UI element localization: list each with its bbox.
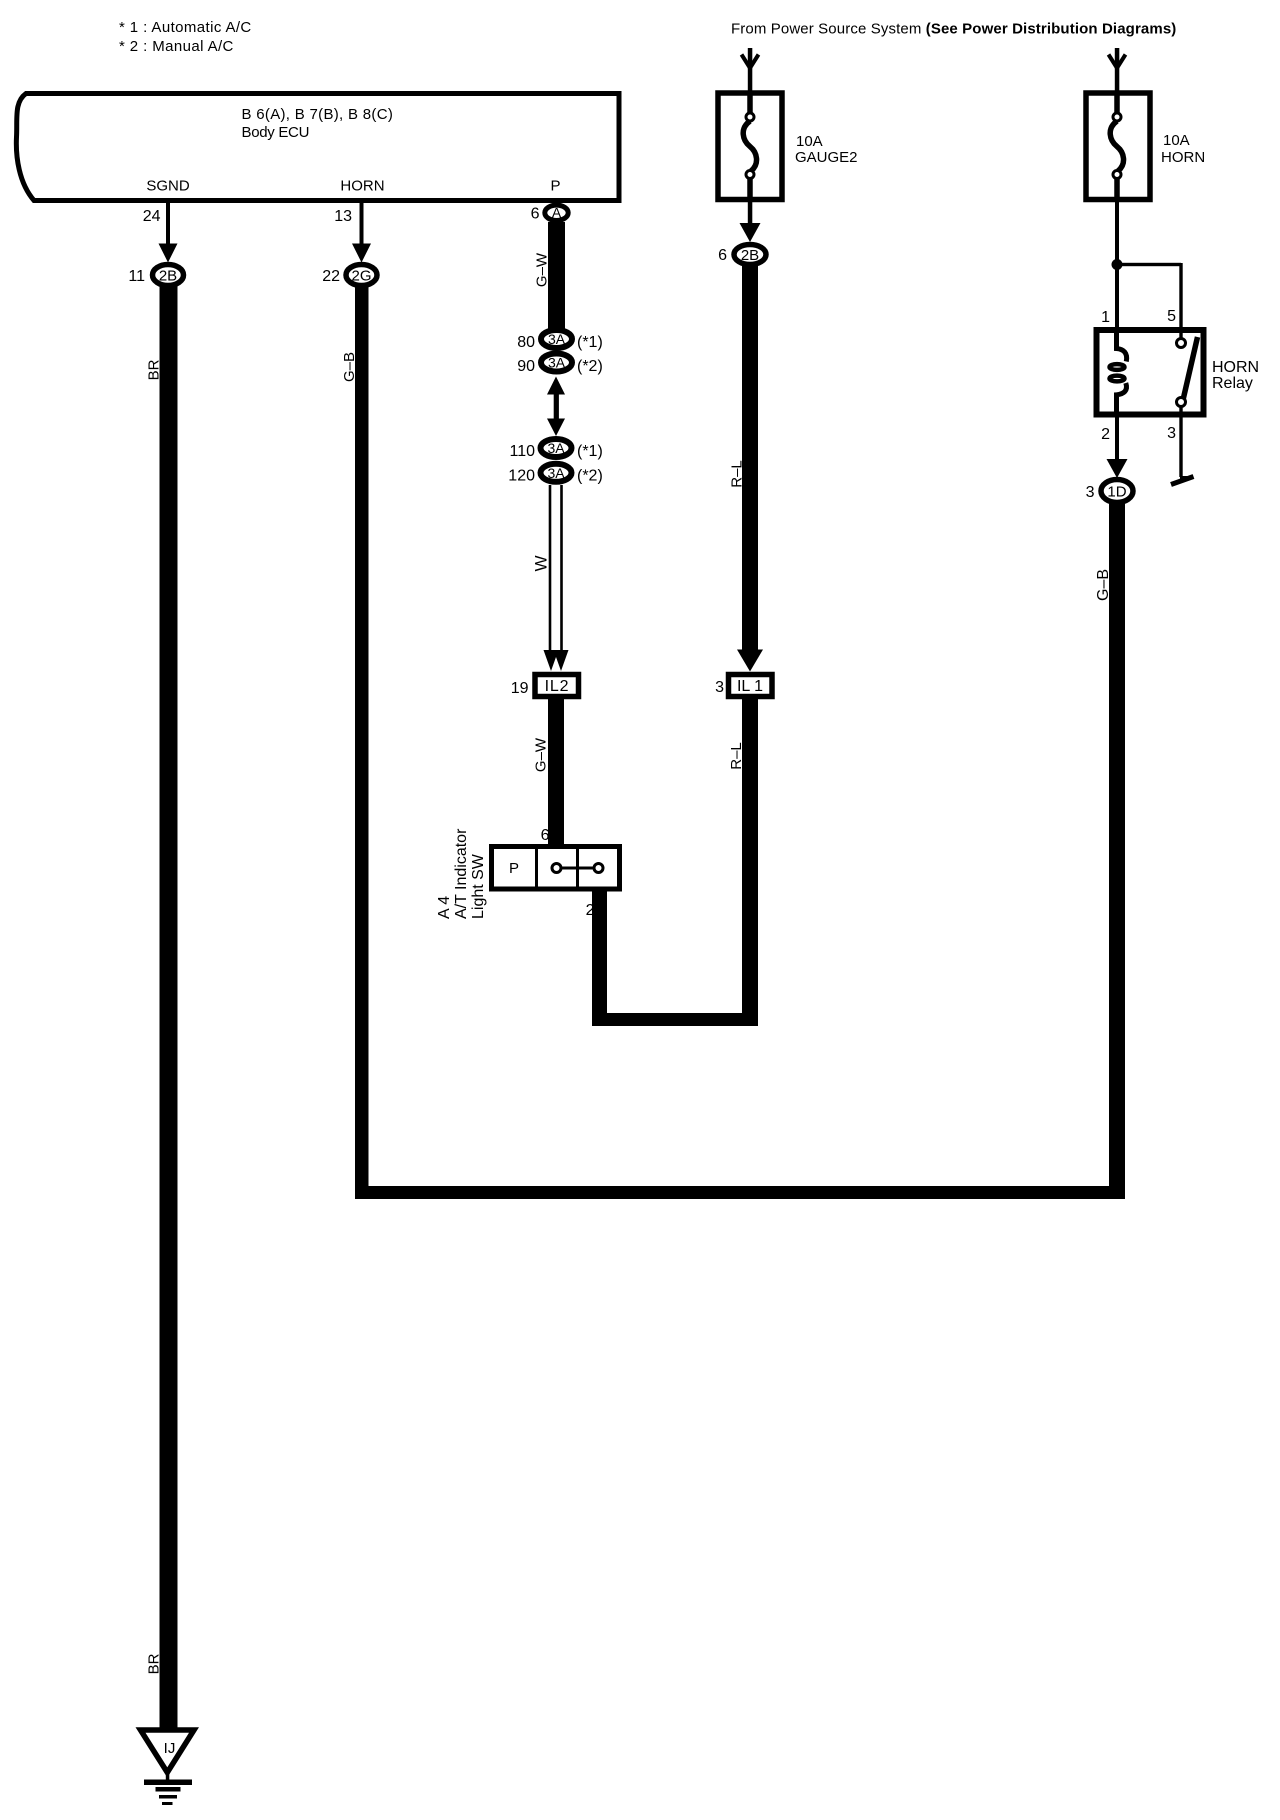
- svg-text:IL2: IL2: [545, 678, 570, 695]
- pin 24 SGND stub wire: [166, 201, 170, 248]
- cell divider 2: [576, 847, 579, 890]
- relay switch top contact: [1177, 339, 1186, 348]
- ground stem: [166, 1771, 170, 1781]
- svg-text:W: W: [532, 555, 551, 571]
- From power source arrow (GAUGE2): [748, 48, 753, 93]
- ground triangle IJ: [141, 1730, 195, 1773]
- pin 13 HORN stub wire: [360, 201, 364, 248]
- svg-text:3A: 3A: [547, 440, 565, 456]
- ground bar 1: [144, 1780, 192, 1786]
- arrow into IL1: [737, 650, 763, 672]
- svg-text:1: 1: [1101, 309, 1110, 326]
- wire fuse to relay pin 1: [1115, 202, 1119, 328]
- svg-text:5: 5: [1167, 308, 1176, 325]
- svg-text:Light SW: Light SW: [470, 853, 487, 919]
- arrow down into 110: [547, 419, 565, 437]
- stub below fuse: [748, 202, 753, 227]
- svg-text:3: 3: [1167, 425, 1176, 442]
- svg-text:Relay: Relay: [1212, 375, 1253, 392]
- fuse element GAUGE2: [743, 95, 756, 202]
- svg-text:13: 13: [334, 208, 352, 225]
- wire from switch pin 2 down: [592, 889, 607, 1026]
- svg-text:110: 110: [509, 443, 535, 460]
- fuse HORN box: [1086, 93, 1150, 200]
- svg-text:HORN: HORN: [1161, 149, 1205, 166]
- arrow into connector 2G: [352, 244, 371, 263]
- wire G-W (P pin down): [548, 222, 565, 330]
- connector 110 (3A): [541, 439, 572, 457]
- svg-text:3A: 3A: [548, 331, 566, 347]
- wire relay pin3 down: [1179, 417, 1182, 477]
- svg-text:3A: 3A: [548, 355, 566, 371]
- svg-text:6: 6: [718, 247, 727, 264]
- svg-text:G–B: G–B: [341, 352, 358, 382]
- relay switch stub bottom: [1179, 406, 1182, 416]
- svg-text:HORN: HORN: [340, 178, 384, 195]
- connector 120 (3A): [541, 464, 572, 482]
- svg-text:* 2 : Manual A/C: * 2 : Manual A/C: [119, 38, 234, 55]
- svg-text:A/T Indicator: A/T Indicator: [453, 828, 470, 919]
- svg-text:From Power Source System (See: From Power Source System (See Power Dist…: [731, 21, 1176, 38]
- relay switch blade: [1183, 337, 1198, 400]
- svg-text:R–L: R–L: [728, 742, 745, 770]
- arrow into 2B (gauge): [740, 223, 761, 242]
- connector 2B (SGND): [153, 265, 184, 286]
- svg-text:B 6(A), B 7(B), B 8(C): B 6(A), B 7(B), B 8(C): [242, 106, 394, 123]
- svg-text:(*2): (*2): [577, 468, 603, 485]
- wire bottom horizontal G-B: [355, 1186, 1125, 1199]
- svg-text:11: 11: [128, 268, 145, 285]
- svg-text:A: A: [552, 205, 562, 221]
- svg-text:1D: 1D: [1107, 484, 1126, 501]
- arrow up into 90: [547, 377, 565, 395]
- svg-text:IL 1: IL 1: [737, 678, 763, 695]
- wire relay pin2 down: [1115, 417, 1119, 462]
- svg-text:19: 19: [511, 680, 529, 697]
- svg-text:6: 6: [541, 827, 550, 844]
- svg-text:90: 90: [517, 358, 535, 375]
- wire G-B (HORN to relay net, vertical): [355, 284, 369, 1199]
- svg-text:(*1): (*1): [577, 334, 603, 351]
- svg-text:80: 80: [517, 334, 535, 351]
- svg-text:6: 6: [531, 206, 540, 223]
- arrow into connector 2B: [159, 244, 178, 263]
- junction dot: [1112, 259, 1123, 270]
- wire G-B (1D vertical): [1109, 503, 1125, 1199]
- svg-text:BR: BR: [146, 359, 163, 380]
- arrow into 1D: [1107, 459, 1128, 478]
- double arrows into IL2: [544, 650, 559, 671]
- ground bar 4: [162, 1802, 173, 1805]
- svg-text:R–L: R–L: [729, 460, 746, 488]
- svg-text:P: P: [550, 178, 560, 195]
- relay switch bottom contact: [1177, 398, 1186, 407]
- svg-text:2G: 2G: [351, 268, 371, 285]
- svg-text:2B: 2B: [159, 268, 177, 285]
- svg-text:Body ECU: Body ECU: [242, 124, 310, 141]
- relay coil: [1117, 330, 1127, 362]
- contact circle left: [552, 864, 561, 873]
- connector 80 (3A): [541, 330, 572, 348]
- svg-text:BR: BR: [146, 1653, 163, 1674]
- svg-text:24: 24: [143, 208, 161, 225]
- svg-text:A 4: A 4: [436, 896, 453, 919]
- ground bar 3: [159, 1795, 177, 1799]
- svg-text:10A: 10A: [1163, 132, 1190, 149]
- svg-text:(*1): (*1): [577, 443, 603, 460]
- svg-text:10A: 10A: [796, 133, 823, 150]
- fuse element HORN: [1110, 95, 1123, 202]
- svg-text:HORN: HORN: [1212, 359, 1259, 376]
- connector 2B (gauge): [734, 245, 766, 265]
- relay switch stub top: [1179, 328, 1182, 339]
- wire between connector pair: [554, 392, 559, 421]
- wire G-W (IL2 to switch): [548, 699, 564, 847]
- connector 2G (HORN): [346, 265, 377, 286]
- switch A4 A/T Indicator Light SW box: [492, 847, 620, 890]
- svg-text:120: 120: [508, 468, 535, 485]
- fuse GAUGE2 box: [718, 93, 782, 200]
- wire W double line: [549, 485, 552, 652]
- svg-text:(*2): (*2): [577, 358, 603, 375]
- svg-text:22: 22: [322, 268, 340, 285]
- svg-text:GAUGE2: GAUGE2: [795, 149, 858, 166]
- body ground symbol: [1180, 476, 1193, 480]
- svg-text:G–B: G–B: [1095, 569, 1112, 601]
- From power source arrow (HORN): [1115, 48, 1120, 93]
- junction box IL2: [535, 675, 579, 697]
- cell divider 1: [535, 847, 538, 890]
- svg-text:* 1 : Automatic A/C: * 1 : Automatic A/C: [119, 19, 252, 36]
- connector 90 (3A): [541, 354, 572, 372]
- svg-text:2: 2: [1101, 426, 1110, 443]
- connector circle A: [545, 205, 568, 220]
- wire horizontal to R-L: [592, 1013, 758, 1026]
- svg-text:SGND: SGND: [146, 178, 190, 195]
- svg-text:G–W: G–W: [533, 737, 550, 772]
- svg-text:3A: 3A: [547, 465, 565, 481]
- branch wire to pin 5: [1117, 263, 1181, 266]
- wire BR (SGND): [160, 284, 178, 1729]
- contact circle right: [594, 864, 603, 873]
- wire R-L (IL1 down to corner): [742, 699, 758, 1027]
- svg-text:P: P: [509, 860, 519, 877]
- svg-text:IJ: IJ: [164, 1740, 176, 1757]
- Body ECU box: [16, 94, 619, 201]
- svg-text:2B: 2B: [741, 247, 759, 264]
- connector 1D: [1101, 480, 1133, 503]
- HORN relay box: [1097, 330, 1204, 415]
- junction box IL1: [729, 675, 773, 697]
- svg-text:3: 3: [715, 679, 724, 696]
- ground bar 2: [156, 1787, 181, 1792]
- switch contact bar: [557, 867, 599, 870]
- wire R-L (fuse to IL1): [742, 264, 758, 652]
- svg-text:3: 3: [1086, 484, 1095, 501]
- svg-text:G–W: G–W: [534, 252, 551, 287]
